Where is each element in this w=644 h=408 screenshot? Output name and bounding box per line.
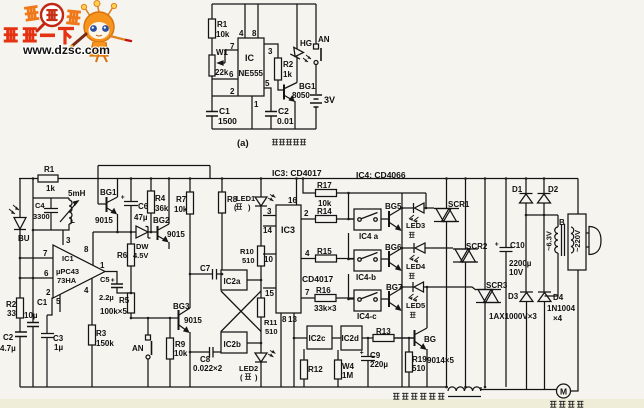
- svg-text:100k×5: 100k×5: [100, 307, 127, 316]
- resistor R9: [169, 318, 171, 387]
- label D1: [512, 185, 523, 194]
- svg-text:5: 5: [56, 297, 61, 306]
- label pin 6: [229, 70, 234, 79]
- resistor R12: [303, 349, 305, 387]
- svg-text:BU: BU: [18, 234, 30, 243]
- wire column C1: [32, 179, 34, 388]
- label BG1 8050: [292, 82, 316, 100]
- resistor R6: [130, 232, 132, 293]
- LED HG: [290, 47, 303, 59]
- label SCR3: [486, 281, 508, 290]
- svg-text:NE555: NE555: [239, 69, 264, 78]
- wire left column: [211, 4, 213, 129]
- resistor R2: [17, 298, 24, 318]
- bottom scan band: [0, 399, 644, 408]
- label pin 5: [265, 79, 270, 88]
- svg-text:5mH: 5mH: [68, 189, 86, 198]
- svg-text:IC2a: IC2a: [224, 277, 241, 286]
- svg-text:1N1004: 1N1004: [547, 304, 576, 313]
- svg-text:R16: R16: [316, 286, 331, 295]
- label R1 1k: [44, 165, 55, 193]
- svg-text:R14: R14: [317, 207, 332, 216]
- svg-text:3300: 3300: [33, 212, 50, 221]
- svg-text:R11: R11: [264, 318, 277, 327]
- svg-text:IC2c: IC2c: [309, 334, 326, 343]
- label C9 220u: [370, 351, 388, 369]
- svg-text:4.7µ: 4.7µ: [0, 344, 16, 353]
- svg-text:10k: 10k: [174, 205, 188, 214]
- svg-text:4.5V: 4.5V: [133, 251, 148, 260]
- svg-text:C2: C2: [278, 106, 289, 116]
- svg-text:SCR1: SCR1: [448, 200, 470, 209]
- svg-text:8: 8: [282, 315, 287, 324]
- label 5mH L: [68, 189, 86, 225]
- capacitor C4: [44, 198, 58, 230]
- cross-coupling wires: [221, 291, 261, 332]
- resistor R2: [275, 58, 282, 80]
- svg-text:36k: 36k: [155, 204, 169, 213]
- resistor R1 (in rail): [38, 175, 58, 182]
- watermark 维库一下 red: [4, 29, 74, 45]
- svg-text:4: 4: [84, 286, 89, 295]
- top rail: [212, 3, 316, 5]
- svg-text:2.2µ: 2.2µ: [99, 293, 114, 302]
- wire pin6 row: [20, 277, 53, 279]
- label R19 510: [412, 355, 427, 373]
- svg-text:BG3: BG3: [173, 302, 190, 311]
- svg-text:W4: W4: [342, 362, 355, 371]
- resistor R19 510: [408, 338, 410, 387]
- svg-text:0.01: 0.01: [277, 116, 294, 126]
- capacitor C1: [27, 323, 39, 327]
- label C7: [200, 264, 211, 273]
- svg-text:33: 33: [7, 309, 16, 318]
- svg-text:R2: R2: [6, 300, 17, 309]
- junction dots left: [19, 177, 192, 353]
- svg-text:LED3: LED3: [406, 221, 425, 230]
- label R1 10k: [216, 20, 230, 39]
- svg-text:IC2d: IC2d: [342, 334, 359, 343]
- svg-text:0.022×2: 0.022×2: [193, 364, 223, 373]
- op IC NE555 box: [238, 38, 264, 96]
- svg-text:BG5: BG5: [385, 202, 402, 211]
- photodiode BU: [14, 218, 26, 230]
- label C2 0.01: [277, 106, 294, 126]
- svg-text:~6.3V: ~6.3V: [545, 231, 554, 251]
- svg-text:IC4-b: IC4-b: [356, 273, 376, 282]
- wire pin3: [62, 230, 64, 245]
- LED5 red: [413, 282, 424, 292]
- svg-text:D2: D2: [548, 185, 559, 194]
- label LED1 (yellow): [234, 194, 255, 212]
- svg-text:R5: R5: [119, 296, 130, 305]
- label C2 4.7u: [0, 333, 16, 353]
- svg-text:IC1: IC1: [62, 254, 74, 263]
- transistor BG2 9015: [157, 226, 159, 240]
- label pin 2 + stub: [47, 298, 52, 316]
- label ~6.3V: [545, 231, 554, 251]
- wire rectifier row: [526, 215, 558, 292]
- svg-text:22k: 22k: [215, 68, 229, 77]
- label CD4017: [302, 274, 333, 284]
- label R6: [117, 251, 128, 260]
- svg-text:510: 510: [242, 256, 255, 265]
- svg-text:BG: BG: [424, 335, 436, 344]
- label AN: [318, 35, 330, 44]
- transistor BG5: [381, 218, 389, 220]
- gate IC2a: [221, 270, 247, 290]
- svg-text:×4: ×4: [553, 314, 563, 323]
- caption 红外发射器: [272, 139, 306, 145]
- label C3 1u: [53, 334, 64, 352]
- wiper arrow W1: [218, 62, 225, 64]
- svg-text:9014×5: 9014×5: [427, 356, 454, 365]
- label SCR1: [448, 200, 470, 209]
- label pin 4 + stub: [91, 279, 93, 326]
- label 1AX1000V x3: [489, 312, 537, 321]
- svg-text:73HA: 73HA: [57, 276, 77, 285]
- label R11 510: [264, 318, 278, 336]
- wire pin6 row: [212, 78, 238, 80]
- label IC1 uPC4373HA: [56, 254, 79, 285]
- svg-text:(a): (a): [237, 138, 249, 149]
- label BG 9014x5: [424, 335, 454, 365]
- watermark logo: 找芯片 orange text: [24, 6, 81, 24]
- resistor R8: [221, 179, 223, 275]
- top rail: [19, 178, 578, 180]
- label IC3: CD4017: [272, 168, 322, 178]
- diode D1: [520, 179, 533, 216]
- label R5 100kx5: [100, 296, 130, 316]
- IC3 CD4017 box: [276, 205, 301, 313]
- wire pin7 row: [20, 257, 53, 259]
- transistor BG 9014: [394, 337, 414, 339]
- label DW 4.5V: [133, 242, 149, 260]
- svg-text:10µ: 10µ: [24, 311, 38, 320]
- svg-text:R2: R2: [283, 60, 294, 69]
- LED4 red: [414, 243, 425, 253]
- label C10 2200u 10V: [509, 241, 532, 277]
- svg-text:R12: R12: [308, 365, 323, 374]
- right side wire: [571, 179, 579, 392]
- control wire c: [349, 274, 355, 299]
- label AN: [132, 344, 144, 353]
- svg-text:R6: R6: [117, 251, 128, 260]
- svg-text:4: 4: [239, 29, 244, 38]
- wire into IC2c: [294, 337, 307, 339]
- svg-text:C8: C8: [200, 355, 211, 364]
- transistor BG1 9015: [98, 203, 106, 205]
- wire C8 row: [190, 351, 221, 353]
- wire pin3: [264, 44, 278, 58]
- label IC NE555: [239, 53, 264, 78]
- label C1 10u: [24, 298, 48, 320]
- svg-text:10V: 10V: [509, 268, 524, 277]
- svg-text:LED1: LED1: [236, 194, 255, 203]
- svg-text:3: 3: [268, 47, 273, 56]
- zener row wire: [93, 231, 136, 233]
- capacitor C6: [124, 179, 138, 233]
- label fan motor: [550, 401, 583, 407]
- svg-text:BG7: BG7: [386, 283, 403, 292]
- transistor BG7: [381, 298, 389, 300]
- svg-text:47µ: 47µ: [134, 213, 148, 222]
- wire IC2a out: [247, 279, 261, 281]
- analog switch IC4-b: [354, 250, 381, 271]
- svg-text:8: 8: [252, 29, 257, 38]
- svg-text:~220V: ~220V: [573, 230, 582, 252]
- svg-text:W1: W1: [216, 48, 229, 57]
- label ~220V: [573, 230, 582, 252]
- transformer B: [559, 218, 565, 227]
- label 3V: [324, 95, 335, 105]
- inductor L 5mH: [63, 198, 72, 230]
- capacitor C7: [213, 269, 217, 280]
- wire pin15 stub: [263, 287, 276, 289]
- capacitor C3: [41, 315, 54, 387]
- svg-text:1500: 1500: [218, 116, 237, 126]
- capacitor C10 2200u: [500, 179, 513, 388]
- label pin 7: [230, 42, 235, 51]
- svg-text:SCR3: SCR3: [486, 281, 508, 290]
- diode D3: [520, 292, 533, 390]
- label R10 510: [240, 247, 255, 265]
- svg-text:33k×3: 33k×3: [314, 304, 337, 313]
- svg-text:C2: C2: [3, 333, 14, 342]
- capacitor C9 220u: [361, 338, 375, 387]
- LED2 green: [255, 353, 267, 362]
- label D4 1N1004 x4: [547, 293, 576, 323]
- label BG2 9015: [153, 216, 185, 239]
- battery 3V: [310, 95, 322, 107]
- label pin 2: [230, 87, 235, 96]
- wire pin3 stub: [263, 215, 276, 217]
- pushbutton AN: [147, 318, 149, 335]
- wire pin10 stub: [263, 253, 276, 255]
- gate IC2d: [341, 326, 362, 350]
- label SCR2: [466, 242, 488, 251]
- svg-text:R3: R3: [96, 329, 107, 338]
- label C4 3300: [33, 201, 50, 221]
- resistor R5: [128, 293, 135, 313]
- svg-text:C5: C5: [100, 275, 110, 284]
- label R3 150k: [96, 329, 114, 348]
- svg-text:R4: R4: [155, 194, 166, 203]
- zener DW 4.5V: [136, 226, 151, 238]
- label C5 2.2u: [99, 275, 114, 302]
- resistor R17 + feed: [303, 179, 426, 194]
- watermark magnifier circle with 芯: [37, 4, 63, 31]
- svg-text:R17: R17: [317, 181, 332, 190]
- mains plug: [586, 233, 589, 247]
- junction dots right: [401, 177, 546, 388]
- svg-text:R1: R1: [217, 20, 228, 29]
- svg-text:LED2: LED2: [239, 364, 258, 373]
- label LED4 red: [406, 262, 426, 271]
- svg-text:LED4: LED4: [406, 262, 426, 271]
- label pin 3: [268, 47, 273, 56]
- svg-text:15: 15: [265, 289, 274, 298]
- label pin 4: [239, 29, 244, 38]
- label pin 8: [252, 29, 257, 38]
- resistor R14 + pin2: [301, 218, 354, 220]
- wire pin2 row: [212, 95, 238, 97]
- wire LED4 row: [402, 247, 453, 249]
- wire pin8: [92, 232, 94, 265]
- svg-text:220µ: 220µ: [370, 360, 388, 369]
- label R4 36k: [155, 194, 169, 213]
- svg-text:R9: R9: [175, 340, 186, 349]
- label C1 1500: [218, 106, 237, 126]
- label R9 10k: [174, 340, 188, 358]
- label pin 6: [44, 269, 49, 278]
- emitter bus wire: [401, 193, 403, 387]
- wire pin14 stub: [263, 225, 276, 227]
- svg-text:10k: 10k: [174, 349, 188, 358]
- svg-text:5: 5: [265, 79, 270, 88]
- svg-text:1µ: 1µ: [54, 343, 63, 352]
- label BG6: [385, 243, 402, 252]
- svg-text:1: 1: [100, 261, 105, 270]
- transformer core: [562, 224, 565, 256]
- svg-text:IC3: CD4017: IC3: CD4017: [272, 168, 322, 178]
- control wire a: [349, 193, 355, 219]
- control wire b: [349, 233, 355, 259]
- label W1 22k: [215, 48, 229, 77]
- svg-text:µPC43: µPC43: [56, 267, 79, 276]
- svg-text:2: 2: [304, 209, 309, 218]
- label BG5: [385, 202, 402, 211]
- svg-text:10k: 10k: [216, 30, 230, 39]
- capacitor C8: [210, 347, 214, 358]
- svg-text:510: 510: [265, 327, 278, 336]
- svg-text:150k: 150k: [96, 339, 114, 348]
- resistor R16 + pin7: [301, 297, 354, 299]
- gate IC2b: [221, 332, 247, 353]
- label R12: [308, 365, 323, 374]
- svg-text:1AX1000V×3: 1AX1000V×3: [489, 312, 537, 321]
- label fan coil: [393, 393, 444, 399]
- LED1 yellow: [255, 197, 267, 206]
- wire LED5 row: [402, 287, 476, 290]
- svg-text:R13: R13: [376, 327, 391, 336]
- LC tank wires: [33, 198, 69, 230]
- op-amp IC1: [53, 245, 105, 298]
- svg-text:3V: 3V: [324, 95, 335, 105]
- label C6 47u: [134, 202, 149, 222]
- svg-text:510: 510: [412, 364, 426, 373]
- svg-text:AN: AN: [318, 35, 330, 44]
- svg-text:C3: C3: [53, 334, 64, 343]
- label BG3 9015: [173, 302, 202, 325]
- primary winding 6.3V: [545, 215, 559, 296]
- svg-text:BG6: BG6: [385, 243, 402, 252]
- bottom rail: [212, 128, 316, 130]
- svg-text:L: L: [70, 216, 75, 225]
- thyristor SCR2: [453, 249, 478, 262]
- svg-text:LED5: LED5: [406, 301, 425, 310]
- thyristor SCR3: [476, 290, 501, 303]
- svg-text:1k: 1k: [283, 70, 292, 79]
- svg-text:IC3: IC3: [281, 225, 295, 235]
- svg-text:3: 3: [267, 207, 272, 216]
- svg-text:IC4 a: IC4 a: [359, 232, 379, 241]
- resistor R3: [91, 325, 93, 387]
- motor M: [557, 384, 571, 398]
- svg-text:R1: R1: [44, 165, 55, 174]
- svg-text:6: 6: [229, 70, 234, 79]
- resistor W4 1M: [337, 350, 339, 387]
- pushbutton AN: [315, 4, 317, 44]
- wire IC2c to IC2d: [332, 337, 341, 339]
- svg-text:7: 7: [43, 249, 48, 258]
- svg-text:M: M: [560, 387, 567, 397]
- svg-text:9015: 9015: [184, 316, 202, 325]
- svg-text:C10: C10: [510, 241, 525, 250]
- svg-text:www.dzsc.com: www.dzsc.com: [22, 43, 110, 57]
- resistor R10: [258, 246, 265, 266]
- wire pin1: [251, 96, 253, 129]
- svg-text:13: 13: [288, 315, 297, 324]
- svg-text:8050: 8050: [292, 91, 310, 100]
- label LED3 red: [406, 221, 425, 230]
- watermark mascot: [67, 1, 131, 63]
- wire base row BG3: [131, 317, 178, 319]
- LED1 column: [260, 179, 262, 388]
- svg-text:2200µ: 2200µ: [509, 259, 532, 268]
- secondary box 220V: [568, 214, 586, 270]
- svg-text:14: 14: [263, 226, 272, 235]
- bottom rail: [20, 387, 557, 390]
- transistor BG6: [381, 258, 389, 260]
- wire pin16: [296, 179, 298, 206]
- junction dots middle: [221, 177, 370, 344]
- gate IC2c: [307, 326, 332, 349]
- svg-text:DW: DW: [136, 242, 149, 251]
- transistor BG1 8050: [283, 85, 285, 100]
- fan inductor coil: [448, 387, 481, 391]
- svg-text:CD4017: CD4017: [302, 274, 333, 284]
- svg-text:AN: AN: [132, 344, 144, 353]
- svg-text:7: 7: [305, 288, 310, 297]
- wire pin1 to C5: [105, 272, 117, 285]
- label BG1 9015: [95, 188, 117, 225]
- resistor R11: [258, 298, 265, 317]
- svg-text:IC: IC: [245, 53, 255, 63]
- label R7 10k: [174, 195, 188, 214]
- label IC4: CD4066: [356, 170, 406, 180]
- diode D2: [538, 179, 551, 216]
- label LED5 red: [406, 301, 425, 310]
- label R17 10k: [317, 181, 332, 208]
- label pin 7: [43, 249, 48, 258]
- svg-text:IC2b: IC2b: [224, 340, 241, 349]
- capacitor C5: [111, 284, 123, 288]
- capacitor C2: [265, 112, 277, 117]
- wire pin8: [257, 4, 259, 38]
- resistor R15 + pin4: [301, 258, 354, 260]
- svg-text:D3: D3: [508, 292, 519, 301]
- svg-text:2: 2: [230, 87, 235, 96]
- label C8 0.022x2: [193, 355, 223, 373]
- label LED2 (green): [239, 364, 258, 382]
- svg-text:9015: 9015: [167, 230, 185, 239]
- svg-text:8: 8: [84, 245, 89, 254]
- label BU: [18, 234, 30, 243]
- svg-text:1M: 1M: [342, 371, 353, 380]
- wire R2 to base: [278, 80, 284, 90]
- svg-text:R15: R15: [317, 247, 332, 256]
